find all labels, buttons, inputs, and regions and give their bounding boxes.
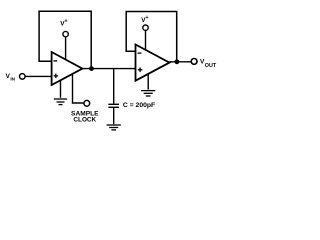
svg-text:CLOCK: CLOCK: [73, 117, 96, 124]
op-amp A1: [52, 52, 83, 85]
wire A1 ground pin: [60, 81, 62, 98]
ground below capacitor: [107, 125, 121, 130]
wire feedback loop around A2 (output node to inverting input): [126, 12, 177, 62]
terminal V_OUT: [191, 59, 197, 65]
wire A2 ground pin: [147, 74, 149, 90]
wire V_IN to A1 + input: [25, 75, 51, 77]
node A1 output junction: [89, 66, 94, 71]
op-amp A2: [136, 45, 170, 81]
wire A1 sample pin to clock terminal: [73, 74, 84, 103]
svg-text:+: +: [146, 15, 149, 21]
ground below A1: [54, 99, 67, 105]
terminal V+ A2: [143, 25, 148, 30]
terminal SAMPLE CLOCK: [84, 100, 90, 106]
ground below A2: [141, 91, 155, 96]
wire feedback loop around A1 (output node to inverting input): [39, 11, 91, 68]
wire A2 output to V_OUT terminal: [169, 61, 191, 63]
terminal V+ A1: [63, 31, 68, 36]
wire V+ to A2 top edge: [145, 30, 147, 50]
wire hold capacitor tap: [113, 69, 115, 104]
wire A1 output to A2 + input: [82, 68, 135, 70]
terminal V_IN: [20, 74, 26, 80]
capacitor C (hold): [108, 104, 119, 107]
svg-text:OUT: OUT: [205, 63, 217, 69]
wire V+ to A1 top edge: [65, 37, 67, 60]
svg-text:+: +: [65, 18, 68, 24]
svg-text:IN: IN: [10, 76, 15, 81]
wire capacitor to ground: [113, 108, 115, 125]
svg-text:C = 200pF: C = 200pF: [123, 102, 155, 109]
node A2 output junction: [175, 59, 180, 64]
